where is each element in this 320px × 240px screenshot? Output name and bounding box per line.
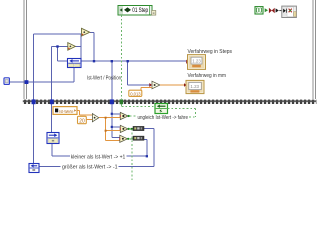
wire: constant 0,013 to M2 (orange) bbox=[141, 87, 152, 90]
svg-text:1.23: 1.23 bbox=[190, 84, 199, 89]
feedback node 2 (arrow left) bbox=[29, 164, 39, 173]
indicator: Verfahrweg in Steps bbox=[186, 55, 205, 70]
junction orange x=105.6 y=117.7 bbox=[105, 117, 107, 119]
wire: triangle A output down to bus bbox=[90, 33, 94, 62]
wire: local variable to M1 top input (orange) bbox=[77, 111, 92, 115]
wire: node2 out right (groesser -1) bbox=[39, 128, 154, 166]
tunnel on left border bbox=[25, 80, 29, 84]
tunnel on band x=51.7 bbox=[50, 99, 54, 104]
constant 20 bbox=[78, 116, 87, 124]
comparator 2 bbox=[120, 125, 130, 132]
converter box U bbox=[133, 126, 144, 130]
feedback node 1 (arrow right) bbox=[47, 133, 59, 144]
boolean wire: comparator3 out (short) bbox=[129, 138, 133, 140]
junctions on comparison branch bbox=[111, 113, 113, 115]
svg-text:größer als Ist-Wert -> -1: größer als Ist-Wert -> -1 bbox=[62, 164, 118, 170]
boolean wire: comparator1 out to green node right (dashed) bbox=[130, 108, 196, 117]
junction bus x=94 bbox=[93, 60, 95, 62]
svg-text:Verfahrweg in Steps: Verfahrweg in Steps bbox=[188, 49, 233, 55]
svg-text:ungleich Ist-Wert -> fahre: ungleich Ist-Wert -> fahre bbox=[138, 115, 189, 121]
increment triangle A bbox=[82, 28, 90, 36]
wire: M2 output to mm indicator (orange) bbox=[160, 84, 184, 86]
wire: long vertical from corner to node2 (x=33.5) bbox=[34, 34, 82, 164]
wire: M1 output bus (orange) to comparator inputs bbox=[99, 118, 121, 141]
converter box L bbox=[133, 136, 144, 140]
svg-text:0,013: 0,013 bbox=[130, 91, 141, 97]
top-right black arrow bbox=[276, 8, 279, 12]
local variable Ist-Werte bbox=[53, 107, 77, 115]
green tunnel on band x=121.5 bbox=[120, 99, 124, 104]
terminal (left edge) bbox=[4, 78, 9, 85]
structure right border (double line) bbox=[313, 0, 315, 99]
boolean wire: comparator2 out (short) bbox=[130, 128, 133, 130]
svg-text:Ist-Werte: Ist-Werte bbox=[59, 109, 73, 115]
coercion arrow at M2 input bbox=[149, 83, 152, 87]
wire: left terminal to feedback node C initializer (horizontal y=82) bbox=[9, 68, 74, 83]
wire: main bus y=61.2 to indicator 1 bbox=[81, 60, 186, 62]
junction on triangle B input line bbox=[56, 45, 58, 47]
decrement triangle B bbox=[68, 43, 76, 51]
svg-text:1.23: 1.23 bbox=[192, 59, 201, 64]
case selector label sub-box bbox=[152, 11, 156, 16]
case selector label "01 Step" bbox=[118, 6, 152, 16]
junction bus x=127.7 bbox=[127, 60, 129, 62]
feedback node C bbox=[68, 59, 82, 68]
constant 0,013 bbox=[129, 90, 142, 97]
boolean feedback node (green) bbox=[155, 104, 168, 114]
top-right green icon [1] bbox=[255, 7, 263, 14]
tunnel on band x=33.5 bbox=[32, 99, 36, 104]
wire: bus branch down x=127.7 to multiply M2 bbox=[128, 61, 150, 85]
boolean junction + long dashed vertical down bbox=[131, 128, 133, 130]
boolean wire: case selector to green node (dashed) bbox=[122, 15, 156, 107]
indicator: Verfahrweg in mm bbox=[184, 80, 204, 93]
svg-text:Ist-Wert / Position: Ist-Wert / Position bbox=[87, 76, 121, 82]
top-right red glyph bbox=[269, 8, 275, 13]
wire: bus branch down x=111.8 to comparisons bbox=[112, 61, 121, 137]
svg-text:01 Step: 01 Step bbox=[132, 8, 148, 14]
wire: triangle B output down to node C right bbox=[75, 34, 81, 59]
structure left border (double line) bbox=[24, 0, 27, 99]
multiply node M2 (steps->mm) bbox=[152, 81, 160, 89]
svg-text:Verfahrweg in mm: Verfahrweg in mm bbox=[188, 73, 227, 79]
wire: node C left loop to triangle B input bbox=[58, 47, 68, 62]
junction bus x=111.8 bbox=[111, 60, 113, 62]
wire: vertical x=51.7 band tunnel to node1 bbox=[52, 47, 68, 133]
top-right green arrow bbox=[265, 8, 268, 12]
svg-text:kleiner als Ist-Wert -> +1: kleiner als Ist-Wert -> +1 bbox=[71, 154, 126, 160]
wire: node1 stem down and right (kleiner +1) bbox=[52, 140, 147, 157]
wire: constant 20 to M1 (orange) bbox=[86, 119, 92, 121]
junction orange x=105.6 y=130.7 bbox=[105, 130, 107, 132]
top-right dash bbox=[279, 10, 281, 12]
comparator 1 (ungleich) bbox=[120, 112, 130, 119]
top-right gray selector box bbox=[282, 6, 297, 17]
tunnel on band x=111.8 bbox=[110, 99, 114, 104]
junction kleiner wire bbox=[146, 155, 148, 157]
comparator 3 bbox=[119, 135, 129, 142]
sequence structure film-strip bottom border bbox=[23, 100, 317, 104]
svg-text:20: 20 bbox=[79, 118, 84, 124]
multiply node M1 bbox=[92, 114, 98, 122]
